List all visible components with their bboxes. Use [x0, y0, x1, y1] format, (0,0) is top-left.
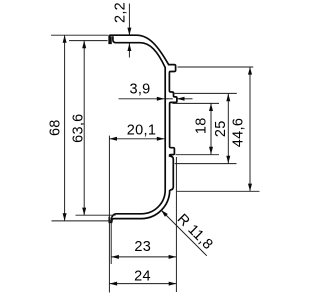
dim 68 arrow up — [63, 35, 67, 43]
dim 44,6 ext top — [178, 66, 254, 68]
dim 25 ext bottom — [175, 163, 237, 165]
svg-text:3,9: 3,9 — [129, 82, 150, 98]
dim 18 arrow up — [209, 103, 213, 111]
dim 18 ext top — [173, 102, 220, 104]
dim 44,6 arrow up — [248, 67, 252, 75]
dim 68 line — [64, 35, 66, 221]
radius leader arrow — [161, 210, 168, 217]
dim 63,6 line — [83, 41, 85, 216]
profile inner contour — [111, 36, 165, 218]
svg-text:25: 25 — [213, 120, 229, 137]
dim 63,6 arrow up — [82, 41, 86, 49]
dim 25 arrow up — [226, 94, 230, 102]
dim 25 arrow down — [226, 156, 230, 164]
dim 3,9 line crossing — [166, 98, 173, 100]
bottom lip inner edge — [110, 218, 112, 223]
dim 3,9 line right — [177, 98, 193, 100]
radius leader R 11,8 — [161, 210, 207, 256]
dim 23 arrow right — [169, 255, 177, 259]
dim 20,1 arrow right — [157, 137, 165, 141]
svg-text:2,2: 2,2 — [112, 2, 128, 23]
dim 2,2 line lower — [128, 43, 130, 57]
dim 3,9 arrow right-pointing — [157, 97, 165, 101]
profile outer contour — [109, 35, 177, 222]
dim 63,6 ext top — [69, 40, 108, 42]
dim 3,9 arrow left-pointing — [177, 97, 185, 101]
svg-text:18: 18 — [193, 117, 209, 134]
svg-text:23: 23 — [134, 239, 151, 255]
dim 44,6 ext bottom — [177, 190, 260, 192]
dim 18 ext bottom — [176, 154, 220, 156]
dim 23 left ext — [110, 222, 112, 264]
dim 3,9 line left — [119, 98, 165, 100]
dim 23 right ext — [175, 157, 177, 292]
dim 2,2 arrow up — [127, 43, 131, 51]
svg-text:24: 24 — [134, 269, 151, 285]
dim 23 arrow left — [111, 255, 119, 259]
dim 25 ext top — [173, 92, 237, 94]
dim 2,2 arrow down — [127, 28, 131, 36]
svg-text:68: 68 — [48, 119, 64, 136]
dim 68 ext bottom — [52, 220, 114, 222]
dim 20,1 line — [109, 138, 164, 140]
dim 23 line — [111, 256, 176, 258]
svg-text:R 11,8: R 11,8 — [174, 211, 216, 253]
dim 68 ext top — [51, 34, 108, 36]
dim 44,6 line — [249, 67, 251, 191]
dim 20,1 ext left — [108, 136, 110, 293]
dim 24 arrow left — [110, 282, 118, 286]
dim 68 arrow down — [63, 213, 67, 221]
dim 25 line — [227, 94, 229, 164]
dim 20,1 arrow left — [109, 137, 117, 141]
dim 44,6 arrow down — [248, 184, 252, 192]
dim 24 arrow right — [169, 282, 177, 286]
svg-text:20,1: 20,1 — [127, 123, 156, 139]
dim 18 line — [210, 103, 212, 154]
dim 24 line — [110, 283, 177, 285]
svg-text:63,6: 63,6 — [71, 113, 87, 142]
dim 18 arrow down — [209, 147, 213, 155]
dim 63,6 arrow down — [82, 208, 86, 216]
dim 63,6 ext bottom — [76, 214, 116, 216]
dim 2,2 line upper — [128, 4, 130, 36]
svg-text:44,6: 44,6 — [230, 118, 246, 147]
